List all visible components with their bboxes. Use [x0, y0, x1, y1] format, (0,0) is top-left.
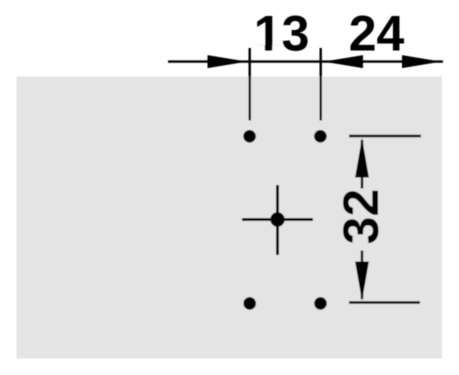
center cross horizontal line [242, 218, 313, 221]
center cross dot [270, 212, 284, 226]
svg-text:32: 32 [333, 189, 389, 245]
vertical dimension line lower segment [361, 251, 363, 300]
hole bottom-left [243, 297, 256, 310]
svg-text:13: 13 [254, 6, 310, 62]
hole top-left [243, 130, 256, 143]
arrowhead down (32 dim) [355, 262, 369, 301]
extension line 1 (left hole) [248, 48, 250, 121]
hole bottom-right [314, 297, 327, 310]
center cross vertical line [276, 185, 279, 255]
extension line top (32 dim) [349, 135, 421, 138]
label 13 digit-1 foot mask right [272, 45, 280, 52]
extension line 2 (right hole) [320, 48, 322, 121]
arrowhead left toward ext line 2 [324, 55, 364, 68]
arrowhead right at panel edge [402, 55, 441, 68]
vertical dimension line upper segment [361, 140, 363, 189]
dimension line (horizontal, top) [168, 60, 443, 62]
panel (gray board) [17, 77, 443, 359]
arrowhead up (32 dim) [355, 138, 369, 178]
extension line bottom (32 dim) [349, 301, 420, 304]
label 13 digit-1 foot mask left [255, 45, 264, 52]
hole top-right [314, 130, 327, 143]
svg-text:24: 24 [349, 6, 405, 62]
arrowhead right toward ext line 1 [208, 55, 248, 68]
